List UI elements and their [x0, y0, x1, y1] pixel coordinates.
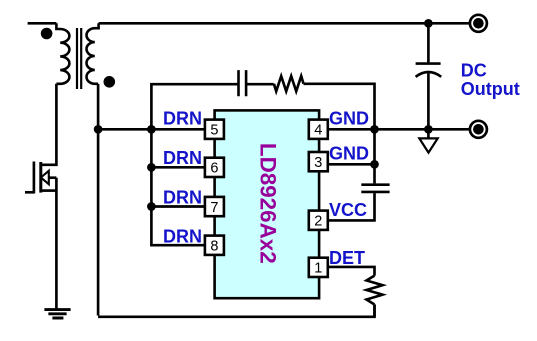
wire bottom rail	[98, 304, 374, 316]
wire secondary return rail	[97, 84, 100, 316]
pin 4	[309, 120, 328, 139]
pin 7	[205, 197, 224, 216]
svg-text:3: 3	[314, 155, 322, 171]
svg-text:Output: Output	[461, 79, 520, 99]
IC U1 body	[215, 110, 320, 298]
wire snubber mid	[246, 83, 274, 86]
svg-text:8: 8	[210, 239, 218, 255]
capacitor VCC	[361, 185, 389, 192]
pin 1	[309, 258, 328, 277]
junction top cap node	[424, 19, 433, 28]
svg-text:DRN: DRN	[163, 188, 202, 208]
svg-text:7: 7	[210, 200, 218, 216]
pin 2	[309, 211, 328, 230]
polarity dot secondary	[104, 76, 116, 88]
capacitor snubber	[239, 70, 247, 96]
wire DET resistor bottom	[373, 305, 376, 317]
wire DET pin1 row	[328, 267, 375, 276]
wire vcc cap top lead	[373, 129, 376, 183]
terminal DC output -	[470, 121, 487, 138]
wire source to ground	[55, 178, 58, 309]
svg-text:DC: DC	[461, 60, 487, 80]
transformer T1 primary winding	[56, 23, 69, 83]
resistor snubber	[274, 76, 304, 91]
wire DRN pin7 row	[151, 205, 205, 208]
pin 3	[309, 152, 328, 171]
junction snubber rail top node	[147, 125, 156, 134]
junction DRN7 node	[147, 202, 156, 211]
wire GND row to DC output -	[328, 128, 470, 131]
svg-text:DET: DET	[329, 248, 365, 268]
wire GND pin3 row	[328, 163, 375, 166]
svg-text:GND: GND	[329, 108, 369, 128]
junction secondary/DRN node	[94, 125, 103, 134]
wire vcc cap bottom to pin2	[328, 193, 375, 220]
transformer T1 core	[77, 28, 81, 89]
wire snubber rail / DRN bus	[151, 84, 238, 245]
svg-text:LD8926Ax2: LD8926Ax2	[255, 143, 280, 264]
wire top-left primary stub	[28, 22, 57, 25]
svg-text:DRN: DRN	[163, 109, 202, 129]
svg-text:VCC: VCC	[329, 200, 367, 220]
wire DRN pin6 row	[151, 166, 205, 169]
polarity dot primary	[41, 28, 53, 40]
resistor DET	[367, 276, 383, 305]
pin 6	[205, 158, 224, 177]
svg-text:DRN: DRN	[163, 148, 202, 168]
svg-text:1: 1	[314, 261, 322, 277]
ground (output, arrow)	[427, 129, 430, 138]
wire DRN pin5 row	[98, 128, 205, 131]
svg-text:5: 5	[210, 123, 218, 139]
junction GND/snubber node	[370, 125, 379, 134]
wire top rail to DC output +	[99, 22, 470, 25]
junction DRN6 node	[147, 163, 156, 172]
svg-text:6: 6	[210, 161, 218, 177]
pin 5	[205, 120, 224, 139]
svg-text:4: 4	[314, 123, 322, 139]
ground (source)	[44, 310, 70, 318]
svg-text:GND: GND	[329, 143, 369, 163]
junction GND/outputcap node	[424, 125, 433, 134]
junction pin3/vcc-cap node	[370, 160, 379, 169]
svg-text:2: 2	[314, 214, 322, 230]
pin 8	[205, 236, 224, 255]
transistor Q1 N-MOSFET	[33, 162, 36, 194]
svg-text:DRN: DRN	[163, 227, 202, 247]
transformer T1 secondary winding	[87, 23, 99, 84]
terminal DC output +	[470, 15, 487, 32]
wire drain lead (primary to MOSFET)	[42, 84, 56, 165]
capacitor output (polarized)	[427, 23, 430, 62]
wire snubber to GND node	[304, 84, 375, 130]
